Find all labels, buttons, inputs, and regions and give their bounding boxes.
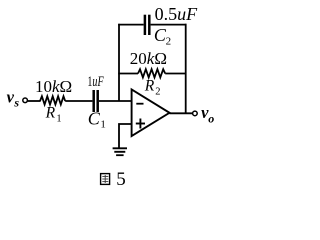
svg-text:o: o: [208, 111, 214, 125]
svg-text:1: 1: [100, 118, 106, 130]
ground: [113, 148, 127, 155]
wire R2 branch left segment: [118, 73, 138, 75]
wire from R1 to C1: [65, 100, 92, 102]
wire feedback left vertical from node A up to C2 branch: [118, 24, 120, 101]
wire top branch right segment from C2 to right vertical: [151, 24, 187, 26]
svg-text:2: 2: [155, 87, 160, 98]
resistor R1: [40, 96, 65, 104]
svg-text:0.5uF: 0.5uF: [155, 4, 199, 24]
svg-text:1: 1: [56, 114, 61, 125]
svg-text:v: v: [7, 88, 15, 107]
label vo: [201, 103, 214, 125]
svg-text:R: R: [144, 77, 155, 94]
node vo output terminal: [193, 111, 198, 116]
designator R1: [45, 105, 62, 125]
caption figure glyph (CJK tu): [101, 174, 110, 185]
wire R2 branch right segment: [165, 73, 186, 75]
wire non-inverting input: [119, 124, 132, 148]
label vs: [7, 88, 20, 110]
svg-text:R: R: [45, 105, 56, 122]
op-amp U1: [132, 90, 170, 137]
svg-text:1uF: 1uF: [87, 74, 103, 90]
wire from vs terminal to R1: [28, 100, 41, 102]
resistor R2: [138, 69, 165, 77]
svg-text:C: C: [88, 109, 101, 129]
svg-text:5: 5: [116, 169, 126, 190]
designator C2: [154, 25, 171, 48]
capacitor C2: [145, 15, 149, 35]
svg-text:10kΩ: 10kΩ: [35, 77, 72, 96]
designator R2: [144, 77, 161, 97]
node vs input terminal: [23, 98, 28, 103]
wire output from op-amp apex to terminal: [170, 112, 193, 114]
svg-text:s: s: [13, 95, 19, 109]
wire right vertical from C2 branch down to output node: [185, 24, 187, 114]
svg-text:2: 2: [166, 36, 172, 48]
designator C1: [88, 109, 106, 131]
capacitor C1: [94, 90, 98, 112]
wire top branch left segment to C2: [118, 24, 143, 26]
svg-text:20kΩ: 20kΩ: [130, 49, 167, 68]
wire from C1 to op-amp inverting input (node A junction at x=119): [99, 100, 132, 102]
